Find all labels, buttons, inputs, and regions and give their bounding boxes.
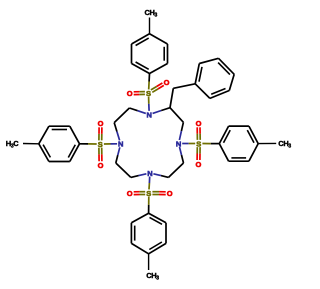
top tosyl double bond LR-UR xyxy=(163,47,165,61)
left tosyl double bond R-BR xyxy=(68,145,75,158)
bottom tosyl bond S-ring xyxy=(148,197,150,205)
benzyl phenyl ring xyxy=(195,64,199,84)
benzyl bond CH2-phenyl xyxy=(173,84,195,89)
left tosyl CH3 bond xyxy=(23,143,39,145)
svg-text:N: N xyxy=(146,110,151,119)
svg-text:O: O xyxy=(127,89,133,98)
left tosyl benzene ring xyxy=(39,126,49,144)
macrocycle bond C8-C7 xyxy=(170,108,183,123)
macrocycle bond C4-C3 xyxy=(116,163,131,177)
svg-text:N: N xyxy=(147,169,152,178)
macrocycle bond C5-N3 xyxy=(161,176,169,178)
top tosyl CH3 bond xyxy=(149,18,151,34)
bottom tosyl CH3 bond xyxy=(148,254,150,270)
svg-text:O: O xyxy=(167,189,173,198)
bottom tosyl double bond UR-T xyxy=(150,217,163,224)
macrocycle bond C6-C5 xyxy=(169,163,184,177)
svg-text:O: O xyxy=(196,119,202,128)
benzyl phenyl double bond E-F xyxy=(211,89,225,95)
right tosyl double bond BR-BL xyxy=(231,157,246,159)
top tosyl S=O upper-right xyxy=(152,89,158,92)
left tosyl double bond BL-L xyxy=(43,145,50,158)
right tosyl CH3 bond xyxy=(258,142,276,144)
svg-text:H3C: H3C xyxy=(6,139,19,150)
bottom tosyl double bond UL-LL xyxy=(134,226,136,241)
svg-text:N: N xyxy=(176,139,181,148)
svg-text:O: O xyxy=(164,78,170,87)
bottom tosyl S=O left xyxy=(139,191,145,193)
bottom tosyl S=O right xyxy=(152,194,159,196)
bottom tosyl benzene ring xyxy=(131,213,148,223)
svg-text:O: O xyxy=(98,161,104,170)
macrocycle bond C1-N1 xyxy=(129,108,137,111)
benzyl phenyl double bond C-D xyxy=(218,63,230,75)
macrocycle bond N2-C6 xyxy=(180,147,182,155)
macrocycle bond C2-C1 xyxy=(114,108,129,123)
top tosyl bond ring-S xyxy=(148,74,150,82)
svg-text:N: N xyxy=(118,140,123,149)
svg-text:O: O xyxy=(98,119,104,128)
svg-text:O: O xyxy=(127,189,133,198)
svg-text:S: S xyxy=(146,189,151,198)
left tosyl double bond TL-TR xyxy=(52,129,67,131)
left tosyl bond N4-S xyxy=(111,143,118,145)
right tosyl bond S-ring xyxy=(202,143,210,145)
benzyl phenyl double bond A-B xyxy=(199,67,202,82)
left tosyl S=O top xyxy=(101,134,103,141)
top tosyl double bond LL-B xyxy=(136,62,149,69)
macrocycle bond N4-C2 xyxy=(117,132,120,141)
top tosyl double bond T-UL xyxy=(136,38,149,45)
bottom tosyl bond N3-S xyxy=(148,177,150,183)
right tosyl double bond TR-R xyxy=(247,130,254,143)
svg-text:O: O xyxy=(195,160,201,169)
top tosyl bond S-N1 xyxy=(148,97,150,104)
right tosyl double bond L-TL xyxy=(224,130,231,143)
top tosyl S=O left xyxy=(139,91,145,93)
benzyl bond C8-CH2 xyxy=(170,88,173,107)
macrocycle bond N3-C4 xyxy=(139,174,147,176)
bottom tosyl double bond B-LR xyxy=(149,242,162,250)
top tosyl benzene ring xyxy=(132,34,150,44)
left tosyl S=O bottom xyxy=(98,148,100,155)
right tosyl S=O bottom xyxy=(196,147,198,153)
svg-text:S: S xyxy=(146,89,151,98)
macrocycle bond C7-N2 xyxy=(181,122,183,131)
svg-text:S: S xyxy=(196,139,201,148)
right tosyl bond N2-S xyxy=(182,143,189,145)
right tosyl benzene ring xyxy=(219,126,228,144)
left tosyl bond S-ring xyxy=(88,143,97,145)
right tosyl S=O top xyxy=(199,134,201,140)
macrocycle bond C3-N4 xyxy=(116,155,118,163)
macrocycle bond N1-C8 xyxy=(153,111,162,114)
svg-text:S: S xyxy=(98,140,103,149)
